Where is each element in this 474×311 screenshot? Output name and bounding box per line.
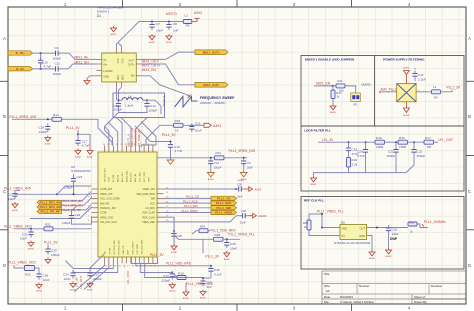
svg-text:AGND: AGND	[171, 251, 178, 254]
svg-text:VDD_CP: VDD_CP	[123, 245, 125, 254]
oscillator U3 body	[340, 225, 367, 240]
ground loop filter	[310, 176, 317, 186]
svg-text:RXTVCO_DIR: RXTVCO_DIR	[114, 240, 116, 255]
capacitor C14 100pF	[144, 101, 157, 113]
port PLL1_RF2_EN	[37, 205, 62, 209]
rotated net labels above U2	[127, 127, 142, 146]
svg-text:REF_CLKP: REF_CLKP	[143, 212, 156, 215]
svg-text:220pF: 220pF	[162, 279, 171, 283]
section box mixer-enable / power-filter	[301, 56, 464, 192]
capacitor C23 100pF	[73, 174, 75, 178]
svg-text:Sheet of: Sheet of	[414, 295, 425, 299]
svg-text:MIX1_OUT+: MIX1_OUT+	[203, 50, 220, 54]
svg-text:AGND: AGND	[149, 41, 156, 44]
svg-text:JP1: JP1	[353, 102, 358, 106]
resistor R16	[375, 136, 385, 149]
ground C21 (brown)	[210, 167, 212, 171]
resistor R25	[214, 233, 224, 241]
svg-text:AGND: AGND	[87, 289, 94, 292]
svg-text:PLL1_RF1_EN: PLL1_RF1_EN	[63, 199, 83, 203]
U2 inside pin names	[100, 167, 156, 254]
U2 pins	[92, 146, 164, 264]
svg-text:STW81200TR: STW81200TR	[71, 169, 91, 173]
svg-text:Drawn By:: Drawn By:	[414, 300, 428, 304]
svg-text:8/14/2023: 8/14/2023	[340, 295, 353, 299]
svg-text:10nF: 10nF	[64, 277, 71, 281]
svg-text:A4: A4	[326, 289, 330, 293]
svg-text:EXT_VCO: EXT_VCO	[144, 171, 146, 182]
svg-text:450pF: 450pF	[387, 154, 396, 158]
resistor R18	[177, 272, 186, 280]
svg-text:R17: R17	[425, 136, 431, 140]
svg-text:AGND: AGND	[169, 290, 176, 293]
ground C28	[224, 251, 231, 261]
svg-text:C15: C15	[195, 122, 201, 126]
svg-text:VDD: VDD	[342, 227, 348, 231]
loop filter main wire	[318, 141, 375, 143]
svg-text:R19: R19	[352, 158, 358, 162]
ground C16 (brown)	[167, 158, 174, 164]
svg-text:PLL1_SDI: PLL1_SDI	[184, 204, 198, 208]
resistor R11	[336, 84, 345, 88]
wire OUT+ to port	[142, 64, 195, 85]
svg-text:Size: Size	[324, 284, 330, 288]
svg-text:AGND: AGND	[28, 248, 35, 251]
svg-text:PLL1_3V: PLL1_3V	[44, 241, 58, 245]
svg-text:10pF: 10pF	[247, 165, 254, 169]
ground C30	[171, 244, 178, 254]
capacitor C16 4.7nF	[168, 142, 173, 151]
svg-text:(A3V3): (A3V3)	[362, 82, 371, 86]
svg-text:OUT_DIG: OUT_DIG	[140, 172, 142, 182]
port IF_IN-	[8, 67, 33, 71]
agnd for mixer gnd pins	[84, 79, 90, 85]
svg-text:4.7uF: 4.7uF	[82, 144, 90, 148]
mixer IC D1 body	[102, 53, 137, 82]
svg-text:AGND: AGND	[75, 156, 82, 159]
svg-text:R15: R15	[175, 119, 181, 123]
capacitor C11 2.2uF	[412, 71, 417, 80]
svg-text:MIX1_IN+: MIX1_IN+	[75, 60, 90, 64]
port MIX1_OUT-	[195, 83, 228, 88]
svg-text:AGND: AGND	[403, 114, 410, 117]
wire from IF_IN+	[33, 52, 53, 54]
svg-text:LFL_IN: LFL_IN	[322, 138, 333, 142]
capacitor C15 10nF	[189, 124, 194, 133]
svg-text:D1: D1	[97, 14, 101, 18]
svg-text:FB: FB	[186, 24, 190, 28]
svg-text:R24: R24	[200, 225, 206, 229]
svg-text:YB_LDO_4V7: YB_LDO_4V7	[104, 167, 106, 182]
capacitor C36 10nF	[36, 271, 41, 280]
svg-text:R11: R11	[338, 79, 343, 83]
ground C36	[36, 283, 43, 293]
svg-text:PLL1_SCK: PLL1_SCK	[216, 201, 233, 205]
svg-text:B: B	[468, 114, 471, 119]
svg-text:PLL1_RF2_EN: PLL1_RF2_EN	[40, 205, 62, 209]
svg-text:240MHz - 380MHz: 240MHz - 380MHz	[200, 101, 226, 105]
frequency sweep waveform	[175, 97, 198, 108]
svg-text:LOOP FILTER PLL: LOOP FILTER PLL	[304, 129, 331, 133]
capacitor C19 47nF	[348, 142, 350, 147]
resistor R19 2.2k	[347, 158, 351, 168]
svg-text:PLL1_MISO: PLL1_MISO	[182, 209, 199, 213]
jumper JP1	[351, 93, 361, 106]
svg-text:A3V_PLL1: A3V_PLL1	[381, 87, 397, 91]
svg-text:PLL1_VREG_VCO: PLL1_VREG_VCO	[8, 261, 36, 265]
svg-text:MIXER 1 ENABLE (ADD JUMPER): MIXER 1 ENABLE (ADD JUMPER)	[305, 58, 354, 62]
mixer pins	[97, 48, 142, 87]
svg-text:C12: C12	[114, 104, 120, 108]
svg-text:IN_DBL: IN_DBL	[113, 174, 115, 182]
svg-text:PLL1_3V: PLL1_3V	[66, 126, 80, 130]
resistor R17	[424, 136, 434, 144]
osc GND wire to ground	[367, 236, 373, 251]
ground C26	[385, 248, 392, 258]
ferrite bead L2	[183, 20, 192, 24]
wire to C30 drop	[164, 217, 175, 231]
svg-text:MIX1_EN: MIX1_EN	[316, 81, 331, 85]
svg-text:R18: R18	[399, 136, 405, 140]
no-connect x on EN wire	[188, 95, 192, 99]
svg-text:R21: R21	[45, 223, 51, 227]
svg-text:FREQUENCY SWEEP: FREQUENCY SWEEP	[200, 96, 235, 100]
svg-text:REF_AF: REF_AF	[134, 173, 137, 182]
ground bottom middle	[183, 290, 190, 300]
ground below FL1	[403, 102, 410, 117]
svg-text:AVDD_DBL: AVDD_DBL	[125, 170, 128, 182]
svg-text:VDI_LDO_REF: VDI_LDO_REF	[142, 239, 144, 255]
svg-text:LFL_OUT: LFL_OUT	[439, 138, 453, 142]
svg-text:D: D	[3, 263, 6, 268]
ground under R13	[330, 104, 337, 114]
svg-text:100pF: 100pF	[51, 253, 60, 257]
svg-text:AGND: AGND	[45, 143, 52, 146]
svg-text:A: A	[3, 36, 6, 41]
svg-text:AGND: AGND	[110, 33, 117, 36]
ground C31	[28, 241, 35, 251]
svg-text:4.7nF: 4.7nF	[175, 149, 183, 153]
svg-text:Revision: Revision	[431, 284, 442, 288]
capacitor C22 450pF	[411, 147, 416, 156]
resistor R13b in series	[215, 156, 225, 160]
ground C37	[87, 282, 94, 292]
svg-text:PLL1_RF2_EN: PLL1_RF2_EN	[63, 204, 83, 208]
capacitor C37 220pF	[87, 270, 92, 279]
svg-text:PLL1_VREG_4V5: PLL1_VREG_4V5	[4, 187, 31, 191]
svg-text:GND: GND	[104, 76, 110, 79]
wire joining inputs	[40, 53, 42, 60]
capacitor C8 1nF	[166, 22, 178, 33]
port PLL1_MISO	[211, 210, 237, 214]
svg-text:Number: Number	[359, 284, 369, 288]
svg-text:A: A	[468, 36, 471, 41]
svg-text:PLL1_VREG_PLL: PLL1_VREG_PLL	[317, 210, 344, 214]
ground C6 (brown)	[243, 167, 245, 171]
ground C33	[169, 283, 176, 293]
ground for C8	[166, 34, 173, 44]
svg-text:PLL1_VREG_PLL: PLL1_VREG_PLL	[229, 233, 256, 237]
capacitor C29 100pF	[69, 213, 81, 222]
svg-text:VCTRL: VCTRL	[109, 247, 111, 255]
diagonal wires to U2 left pins	[30, 186, 92, 219]
filter FL1	[392, 84, 420, 102]
wire mixer VCC to MXVT1 rail	[117, 22, 198, 48]
section box ref clk pll	[301, 197, 464, 270]
wires fanning into U2 top pins	[98, 118, 171, 148]
svg-text:220pF: 220pF	[93, 277, 102, 281]
svg-text:R21: R21	[409, 220, 415, 224]
svg-text:10nF: 10nF	[20, 237, 27, 241]
svg-text:SiT8208AI-21-33S-100.000000E: SiT8208AI-21-33S-100.000000E	[334, 242, 371, 245]
ground above FL1	[403, 67, 410, 84]
svg-text:PLL1_100MHz: PLL1_100MHz	[424, 220, 446, 224]
svg-text:C26: C26	[392, 228, 398, 232]
svg-text:1nF: 1nF	[173, 29, 178, 33]
svg-text:AGND: AGND	[330, 111, 337, 114]
svg-text:VCC_VCO_CORE: VCC_VCO_CORE	[100, 198, 120, 201]
svg-text:EN: EN	[131, 75, 135, 78]
svg-text:VDD_DSM_HDIV: VDD_DSM_HDIV	[136, 193, 155, 196]
port PLL1_RF1_EN	[37, 200, 62, 204]
svg-text:IN-: IN-	[104, 59, 108, 62]
svg-text:VCC_CPOUT: VCC_CPOUT	[132, 240, 134, 254]
capacitor C21 450pF	[393, 147, 398, 156]
svg-text:2.2uF: 2.2uF	[418, 77, 426, 81]
svg-text:VREG_4V5: VREG_4V5	[100, 193, 113, 196]
svg-text:C8: C8	[173, 22, 177, 26]
svg-text:10nF: 10nF	[43, 278, 50, 282]
svg-text:10nF: 10nF	[230, 247, 237, 251]
svg-text:150R: 150R	[376, 145, 384, 149]
svg-text:RXTVCO_DSI: RXTVCO_DSI	[119, 240, 121, 254]
svg-text:R13: R13	[216, 151, 222, 155]
svg-text:1k: 1k	[175, 129, 179, 133]
svg-text:C32: C32	[51, 249, 57, 253]
svg-text:10nF: 10nF	[156, 29, 163, 33]
capacitor C28	[224, 240, 229, 249]
resistor R18b	[398, 136, 408, 149]
resistor R20 vertical	[307, 220, 311, 230]
ground C27	[12, 202, 19, 212]
svg-text:150R: 150R	[399, 145, 407, 149]
capacitor C35 0.1uF	[208, 266, 213, 275]
resistor R21c	[408, 222, 417, 226]
svg-text:C11: C11	[55, 62, 61, 66]
svg-text:1.8uH: 1.8uH	[125, 103, 133, 107]
power port A3V3	[194, 11, 202, 22]
svg-text:AGND: AGND	[183, 297, 190, 300]
ground second	[87, 149, 94, 159]
svg-text:100pF: 100pF	[53, 72, 62, 76]
svg-text:C20: C20	[357, 150, 363, 154]
svg-text:100pF: 100pF	[53, 56, 62, 60]
svg-text:PLL1_3V: PLL1_3V	[447, 85, 461, 89]
port PLL1_CE	[211, 196, 237, 200]
svg-text:C18: C18	[39, 126, 45, 130]
capacitor C28b 10nF with arrow port	[164, 216, 243, 222]
inductor L1	[416, 91, 431, 93]
svg-text:AGND: AGND	[224, 258, 231, 261]
svg-text:4.7nF: 4.7nF	[357, 154, 365, 158]
svg-text:PLL1_VREG_VCO: PLL1_VREG_VCO	[4, 224, 32, 228]
svg-text:AGND: AGND	[36, 290, 43, 293]
svg-text:C: C	[468, 189, 471, 194]
svg-text:ST: ST	[342, 234, 346, 238]
svg-text:AGND: AGND	[208, 178, 215, 181]
svg-text:LFL_IN: LFL_IN	[75, 278, 79, 287]
wire from IF_IN-	[33, 68, 53, 70]
svg-text:VCC: VCC	[116, 59, 118, 64]
svg-text:C7: C7	[156, 22, 160, 26]
ground C17	[75, 149, 82, 159]
capacitor C6 10pF	[241, 158, 246, 167]
svg-text:R14: R14	[53, 113, 59, 117]
ground C34	[70, 282, 77, 292]
svg-text:REF CLK PLL: REF CLK PLL	[304, 199, 324, 203]
svg-text:AGND: AGND	[385, 255, 392, 258]
svg-text:C36: C36	[43, 274, 49, 278]
resistor R24	[199, 229, 208, 233]
svg-text:IF_IN-: IF_IN-	[16, 67, 25, 71]
svg-text:LFL_OUT: LFL_OUT	[79, 276, 83, 289]
capacitor C31 10nF	[28, 229, 33, 238]
svg-text:Date:: Date:	[324, 295, 331, 299]
svg-text:LOGND: LOGND	[104, 70, 113, 73]
svg-text:POWER SUPPLY FILTERING: POWER SUPPLY FILTERING	[383, 58, 425, 62]
capacitor C34 10nF	[70, 270, 75, 279]
svg-text:VREG_VCO: VREG_VCO	[100, 216, 113, 219]
port IF_IN+	[8, 51, 33, 55]
svg-text:PGND/FL_SW: PGND/FL_SW	[100, 207, 116, 210]
loop filter ground rail	[314, 172, 407, 174]
filter box outline	[113, 93, 165, 118]
resistor R21b	[44, 227, 53, 231]
svg-text:VDD: VDD	[148, 177, 150, 182]
svg-text:100pF: 100pF	[114, 108, 123, 112]
wire cap C9 to mixer IN-	[61, 53, 96, 59]
svg-text:PLL1_VREG_4V5: PLL1_VREG_4V5	[10, 115, 37, 119]
svg-text:Title: Title	[324, 272, 330, 276]
svg-text:TEST: TEST	[109, 176, 111, 182]
capacitor C17 4.7uF	[75, 138, 80, 147]
capacitor C11 100pF	[53, 62, 62, 76]
svg-text:R16: R16	[376, 136, 382, 140]
svg-text:C29: C29	[75, 213, 81, 217]
svg-text:C9: C9	[55, 46, 59, 50]
svg-text:A3V3: A3V3	[194, 11, 202, 15]
svg-text:10nF: 10nF	[195, 129, 202, 133]
svg-text:4.7pF: 4.7pF	[44, 64, 52, 68]
svg-text:OUT: OUT	[360, 227, 366, 231]
svg-text:10nF: 10nF	[237, 194, 243, 198]
svg-text:PLL1_3V: PLL1_3V	[206, 255, 220, 259]
svg-text:C37: C37	[94, 273, 100, 277]
IC U2 body	[98, 152, 157, 257]
svg-text:IF FILTER: IF FILTER	[162, 96, 165, 107]
svg-text:2.2k: 2.2k	[352, 163, 358, 167]
svg-text:SCK: SCK	[150, 202, 155, 205]
svg-text:PLL1_SDI: PLL1_SDI	[217, 206, 232, 210]
svg-text:VCC: VCC	[121, 59, 123, 64]
svg-text:IF_IN+: IF_IN+	[16, 51, 26, 55]
svg-text:MXVT1: MXVT1	[166, 12, 177, 16]
U2 pin numbers	[88, 144, 169, 268]
resistor R14	[52, 113, 62, 122]
resistor R15	[174, 119, 184, 128]
resistor R22 vertical	[25, 266, 35, 271]
svg-text:VDI_LDO_VCO: VDI_LDO_VCO	[100, 221, 117, 224]
svg-text:DNP: DNP	[390, 237, 398, 241]
svg-text:AGND: AGND	[403, 67, 410, 70]
wires to SPI ports	[164, 198, 212, 212]
svg-text:OUT-: OUT-	[129, 59, 135, 62]
svg-text:R18: R18	[178, 272, 184, 276]
svg-text:AUX_OUT: AUX_OUT	[121, 171, 124, 182]
svg-text:MIX1_IN-: MIX1_IN-	[75, 56, 89, 60]
svg-text:L2: L2	[185, 14, 189, 18]
ground osc	[369, 250, 376, 260]
svg-text:L4: L4	[128, 95, 132, 99]
svg-text:PLL1_3V: PLL1_3V	[150, 253, 164, 257]
capacitor C33 220pF	[170, 271, 175, 280]
svg-text:C34: C34	[63, 273, 69, 277]
svg-text:100pF: 100pF	[62, 221, 71, 225]
svg-text:R25: R25	[215, 233, 221, 237]
svg-text:PLL1_VREG_DIG: PLL1_VREG_DIG	[229, 149, 256, 153]
capacitor C18 120pF	[39, 124, 51, 135]
capacitor C21b 100pF	[208, 158, 213, 167]
ground agnd below D1	[110, 26, 117, 36]
svg-text:DIN: DIN	[151, 198, 155, 201]
svg-text:PLL1_SCK: PLL1_SCK	[183, 199, 198, 203]
svg-text:AGND: AGND	[259, 214, 267, 218]
svg-text:C23: C23	[77, 175, 83, 179]
svg-text:A3V3: A3V3	[255, 188, 262, 192]
svg-text:R22: R22	[25, 273, 31, 277]
svg-text:PLL1_VDD_RFD: PLL1_VDD_RFD	[166, 262, 192, 266]
capacitor C30	[171, 231, 176, 240]
svg-text:A3V3: A3V3	[213, 124, 221, 128]
ground for C7	[149, 34, 156, 44]
svg-text:GND: GND	[116, 75, 118, 80]
wire OUT- to port	[142, 52, 195, 59]
box bottom rail	[119, 109, 148, 112]
port PLL1_PD_RF	[37, 209, 62, 213]
svg-text:PLL1_PD_RF: PLL1_PD_RF	[41, 210, 61, 214]
svg-text:ALDO4: ALDO4	[117, 174, 120, 182]
svg-text:C22: C22	[417, 150, 423, 154]
svg-text:1nF: 1nF	[207, 285, 212, 289]
mixer U-D1 title text	[97, 6, 124, 19]
wires from U2 bottom-left pins	[65, 261, 117, 292]
svg-text:D: D	[468, 263, 471, 268]
svg-text:D2: D2	[341, 221, 345, 225]
capacitor C12 100pF	[114, 101, 123, 112]
svg-text:AGND: AGND	[310, 183, 317, 186]
svg-text:C:\Users\..\Mixer1.SchDoc: C:\Users\..\Mixer1.SchDoc	[340, 300, 375, 304]
capacitor C40 1nF	[200, 278, 205, 287]
svg-text:PLL1_CE: PLL1_CE	[217, 196, 231, 200]
svg-text:AGND: AGND	[70, 289, 77, 292]
svg-text:CSTB_4V5: CSTB_4V5	[100, 188, 113, 191]
svg-text:120pF: 120pF	[39, 130, 48, 134]
capacitor C9 100pF	[53, 46, 62, 61]
svg-text:100pF: 100pF	[149, 109, 158, 113]
svg-text:LFL_VCO: LFL_VCO	[126, 270, 130, 284]
wire cap C11 to mixer IN+	[61, 64, 96, 69]
svg-text:AGND: AGND	[369, 257, 376, 260]
